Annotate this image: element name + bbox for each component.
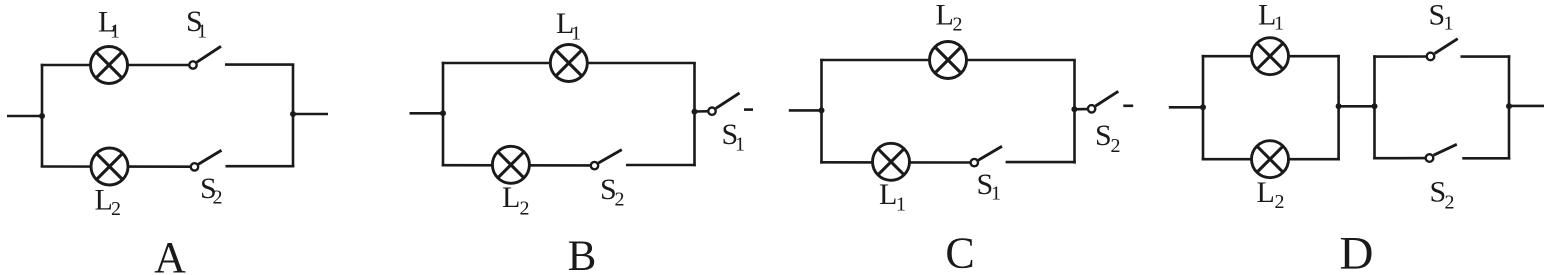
svg-text:2: 2	[1275, 191, 1285, 213]
svg-text:2: 2	[615, 188, 625, 210]
svg-text:1: 1	[991, 182, 1001, 204]
svg-text:1: 1	[735, 134, 745, 156]
svg-text:L: L	[879, 178, 897, 211]
svg-text:1: 1	[1444, 13, 1454, 35]
svg-text:1: 1	[896, 194, 906, 216]
svg-text:A: A	[154, 233, 186, 275]
svg-text:2: 2	[953, 14, 963, 36]
svg-text:S: S	[1095, 119, 1112, 152]
svg-text:B: B	[568, 233, 597, 275]
svg-text:1: 1	[1274, 13, 1284, 35]
svg-text:1: 1	[571, 22, 581, 44]
svg-text:L: L	[1257, 176, 1275, 209]
svg-text:2: 2	[1445, 192, 1455, 214]
svg-text:D: D	[1340, 228, 1374, 275]
svg-text:2: 2	[520, 197, 530, 219]
svg-text:1: 1	[197, 20, 207, 42]
svg-text:L: L	[502, 181, 520, 214]
svg-text:2: 2	[213, 186, 223, 208]
svg-text:2: 2	[111, 198, 121, 220]
svg-text:1: 1	[110, 21, 120, 43]
svg-text:C: C	[945, 229, 974, 275]
svg-text:L: L	[936, 0, 954, 31]
svg-text:2: 2	[1111, 135, 1121, 157]
